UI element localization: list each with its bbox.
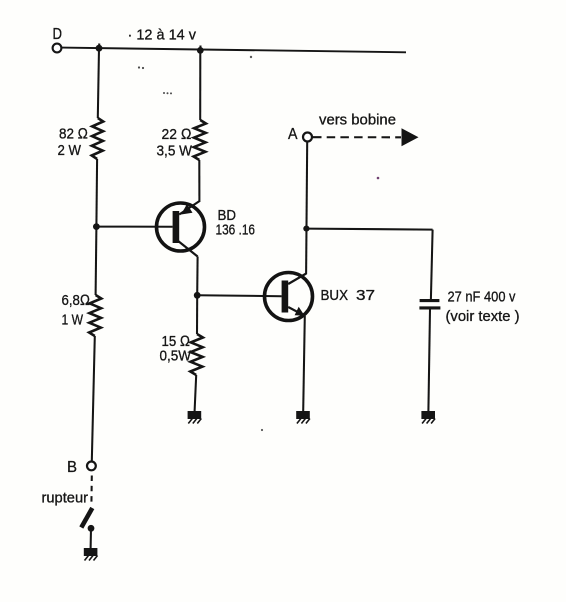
svg-text:(voir texte ): (voir texte ) [446,308,520,325]
resistor R 82ohm 2W [92,118,104,159]
svg-text:0,5W: 0,5W [160,348,192,365]
junction BD base [93,223,100,230]
wire junction to 15ohm [196,295,198,334]
node A terminal circle [303,133,312,142]
scan speck dots [138,66,140,68]
svg-text:D: D [53,26,63,43]
wire left rail mid [95,159,98,227]
junction stub left [98,44,100,49]
arrowhead vers bobine [402,128,419,146]
wire branch to capacitor [306,229,432,230]
wire BUX emitter to ground [303,316,305,411]
wire dashed to bobine [313,136,401,138]
svg-text:· 12 à 14 v: · 12 à 14 v [128,27,197,44]
svg-text:3,5 W: 3,5 W [157,143,193,160]
wire dashed below B [90,476,92,507]
svg-text:vers bobine: vers bobine [319,112,396,129]
capacitor C 27nF plates [419,301,440,308]
transistor Q BUX37 NPN [265,273,313,321]
node B terminal circle [87,462,96,471]
wire 15ohm to ground [195,375,197,411]
junction stub middle [199,46,201,51]
svg-text:6,8Ω: 6,8Ω [62,292,91,309]
svg-text:27 nF 400 v: 27 nF 400 v [448,289,516,306]
wire left rail to B [92,336,95,462]
svg-text:rupteur: rupteur [42,490,89,507]
resistor R 22ohm 3.5W [194,120,206,160]
junction A branch [303,226,309,232]
wire left rail lower [95,227,98,295]
svg-text:136 .16: 136 .16 [216,222,256,239]
wire resistor to BD emitter [198,160,200,202]
svg-text:BUX: BUX [321,287,349,304]
svg-text:37: 37 [356,287,375,304]
wire left rail upper [98,48,99,118]
node D terminal circle [53,44,62,53]
wire top supply rail [62,48,407,53]
wire switch to ground [90,528,92,549]
svg-text:2 W: 2 W [58,142,82,159]
switch contact dot [88,525,95,532]
ground below capacitor [421,411,435,424]
svg-text:22 Ω: 22 Ω [162,126,192,143]
resistor R 15ohm 0.5W [190,334,203,375]
ground below switch [84,548,98,561]
ground below BUX [296,411,310,424]
ground below 15ohm [188,411,202,424]
switch blade [81,508,92,528]
svg-text:A: A [288,126,298,143]
wire BUX base horizontal [197,294,281,297]
wire BD collector down [196,257,198,296]
wire A down to BUX collector [306,142,307,275]
svg-text:82 Ω: 82 Ω [59,126,88,143]
svg-text:1 W: 1 W [62,312,84,329]
junction top-left [96,45,103,52]
junction BUX base [194,292,201,299]
resistor R 6.8ohm 1W [89,295,101,336]
wire middle rail upper [199,50,201,120]
wire capacitor top lead [431,230,433,299]
wire BD base [96,226,172,228]
junction top-middle [197,47,204,54]
svg-text:B: B [67,459,77,476]
wire capacitor bottom lead [428,310,430,412]
transistor Q BD136 PNP [157,201,205,257]
